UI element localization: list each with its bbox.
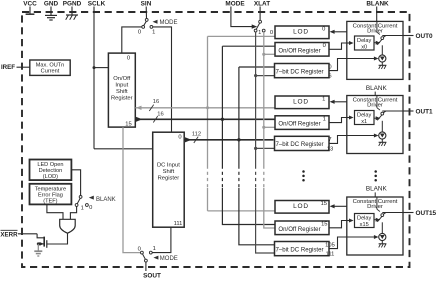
svg-text:LOD: LOD (293, 99, 309, 106)
svg-text:6: 6 (328, 74, 331, 80)
svg-text:Delay: Delay (357, 38, 372, 44)
svg-text:XLAT: XLAT (254, 1, 270, 8)
svg-text:SOUT: SOUT (143, 273, 161, 280)
svg-text:111: 111 (174, 221, 183, 227)
svg-text:Current: Current (41, 69, 60, 75)
svg-text:0: 0 (178, 135, 181, 141)
svg-text:x1: x1 (361, 119, 367, 125)
svg-text:On/Off Register: On/Off Register (278, 47, 320, 54)
svg-text:PGND: PGND (63, 1, 82, 8)
svg-text:0: 0 (138, 30, 141, 36)
svg-text:SIN: SIN (141, 1, 152, 8)
svg-text:VCC: VCC (23, 1, 37, 8)
svg-text:111: 111 (326, 252, 335, 258)
svg-text:Register: Register (158, 176, 180, 182)
svg-text:0: 0 (270, 30, 273, 36)
svg-text:OUT15: OUT15 (416, 210, 436, 217)
svg-text:1: 1 (81, 205, 84, 211)
svg-text:BLANK: BLANK (366, 1, 389, 8)
svg-text:13: 13 (327, 146, 333, 152)
svg-text:LOD: LOD (293, 203, 309, 210)
svg-text:1: 1 (323, 116, 326, 122)
svg-text:MODE: MODE (160, 20, 178, 26)
svg-text:Driver: Driver (367, 28, 383, 34)
svg-text:Delay: Delay (357, 113, 372, 119)
svg-text:On/Off: On/Off (113, 76, 130, 82)
svg-text:0: 0 (138, 246, 141, 252)
svg-text:DC Input: DC Input (157, 162, 180, 168)
svg-text:x15: x15 (360, 222, 369, 228)
svg-text:MODE: MODE (160, 256, 178, 262)
svg-text:OUT1: OUT1 (416, 108, 433, 115)
svg-text:(TEF): (TEF) (43, 198, 57, 204)
svg-text:SCLK: SCLK (88, 1, 106, 8)
svg-text:BLANK: BLANK (96, 197, 116, 203)
svg-text:1: 1 (258, 30, 261, 36)
svg-text:Driver: Driver (367, 204, 383, 210)
svg-text:BLANK: BLANK (366, 85, 388, 92)
svg-text:(LOD): (LOD) (43, 174, 58, 180)
svg-text:0: 0 (127, 56, 130, 62)
svg-text:Shift: Shift (163, 169, 175, 175)
svg-text:Delay: Delay (357, 216, 372, 222)
svg-text:16: 16 (157, 112, 163, 118)
svg-text:Input: Input (115, 83, 128, 89)
svg-text:LOD: LOD (293, 29, 309, 36)
svg-text:XERR: XERR (0, 231, 18, 238)
svg-text:Driver: Driver (367, 102, 383, 108)
svg-text:OUT0: OUT0 (416, 33, 433, 40)
svg-text:0: 0 (322, 27, 325, 33)
svg-text:105: 105 (325, 242, 335, 248)
svg-text:7–bit DC Register: 7–bit DC Register (275, 141, 323, 148)
svg-text:0: 0 (89, 205, 92, 211)
svg-text:112: 112 (192, 131, 201, 137)
svg-text:1: 1 (322, 97, 325, 103)
svg-text:15: 15 (321, 222, 327, 228)
svg-text:On/Off Register: On/Off Register (278, 121, 320, 128)
svg-text:Register: Register (111, 96, 133, 102)
svg-text:0: 0 (328, 64, 331, 70)
svg-text:15: 15 (321, 201, 327, 207)
svg-text:Shift: Shift (116, 89, 128, 95)
svg-text:1: 1 (153, 246, 156, 252)
svg-text:7–bit DC Register: 7–bit DC Register (275, 246, 323, 253)
svg-text:BLANK: BLANK (366, 186, 388, 193)
svg-text:1: 1 (152, 30, 155, 36)
svg-text:GND: GND (44, 1, 59, 8)
svg-text:0: 0 (323, 43, 326, 49)
svg-text:7–bit DC Register: 7–bit DC Register (275, 68, 323, 75)
svg-text:16: 16 (153, 99, 159, 105)
svg-text:15: 15 (125, 121, 131, 127)
svg-text:Max. OUTn: Max. OUTn (36, 63, 65, 69)
svg-text:On/Off Register: On/Off Register (278, 226, 320, 233)
svg-text:IREF: IREF (1, 64, 15, 71)
svg-text:7: 7 (328, 137, 331, 143)
svg-text:x0: x0 (361, 44, 367, 50)
svg-text:MODE: MODE (225, 1, 245, 8)
